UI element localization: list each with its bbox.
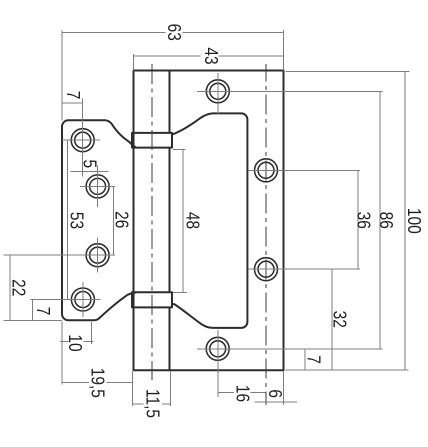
dimension 16 line — [218, 392, 265, 394]
svg-text:7: 7 — [33, 307, 54, 316]
hole B outer — [255, 258, 278, 281]
svg-text:7: 7 — [303, 355, 324, 364]
svg-text:19,5: 19,5 — [87, 368, 108, 398]
dimension 5 line — [70, 170, 108, 172]
dimension 43 line — [134, 55, 284, 57]
svg-text:22: 22 — [8, 279, 29, 296]
dimension 7 right line — [304, 349, 306, 370]
svg-text:16: 16 — [232, 385, 253, 402]
hole H2 outer — [86, 175, 109, 198]
dimension 100 line — [404, 71, 406, 370]
dimension 48 line — [182, 149, 184, 292]
svg-text:5: 5 — [79, 159, 100, 168]
extension knuckle left up — [133, 54, 135, 71]
dimension 7 top-left line — [61, 102, 82, 104]
crosshair H2 horizontal — [80, 185, 115, 187]
crosshair H4 vertical — [82, 282, 84, 317]
knuckle column right edge — [169, 71, 171, 371]
dimension 10 line — [60, 341, 94, 343]
crosshair B horizontal with 36 extension — [249, 268, 361, 270]
hole H1 outer — [71, 129, 94, 152]
hole H1 inner — [75, 132, 91, 148]
centerline knuckle — [151, 64, 153, 380]
svg-text:36: 36 — [353, 212, 374, 229]
svg-text:10: 10 — [64, 334, 85, 351]
extension leaf bottom left — [4, 320, 63, 322]
dimension 22 line — [9, 255, 11, 320]
dimension 36 line — [357, 170, 359, 269]
crosshair H1 vertical — [82, 99, 84, 177]
dimension 26 line — [113, 186, 115, 255]
knuckle barrel bottom — [132, 292, 172, 307]
crosshair H2 vertical — [97, 166, 99, 208]
hole H3 inner — [90, 247, 106, 263]
hole A inner — [258, 162, 274, 178]
hole H4 outer — [71, 288, 94, 311]
svg-text:48: 48 — [182, 212, 203, 229]
dimension 7 bottom-left line — [32, 300, 34, 321]
extension leaf left edge down — [61, 322, 63, 385]
svg-text:100: 100 — [404, 208, 425, 234]
hole Bot outer — [206, 337, 229, 360]
extension leaf bottom curve start down — [91, 322, 93, 344]
dimension 32 line — [331, 269, 333, 370]
svg-text:86: 86 — [375, 212, 396, 229]
dimension 6 line — [254, 401, 297, 403]
crosshair H3 vertical — [97, 238, 99, 273]
hole H4 inner — [75, 292, 91, 308]
svg-text:11,5: 11,5 — [142, 389, 163, 418]
extension barrel left down — [132, 371, 134, 406]
crosshair T vertical — [217, 73, 219, 114]
svg-text:26: 26 — [111, 211, 132, 228]
big leaf outline — [134, 71, 284, 371]
svg-text:43: 43 — [201, 47, 222, 64]
knuckle barrel top — [132, 133, 172, 148]
hole Bot inner — [210, 341, 226, 357]
extension barrel right down — [170, 371, 172, 406]
extension 48 bottom — [173, 291, 187, 293]
hole B inner — [258, 261, 274, 277]
extension 48 top — [173, 148, 185, 150]
hole T outer — [206, 80, 229, 103]
hole H3 outer — [86, 244, 109, 267]
svg-text:7: 7 — [62, 91, 83, 100]
dimension 19,5 line — [62, 381, 133, 383]
crosshair H4 horizontal with 7 extension — [31, 299, 101, 301]
svg-text:6: 6 — [265, 389, 286, 398]
extension bottom edge right — [286, 369, 409, 371]
hole H2 inner — [90, 178, 106, 194]
svg-text:53: 53 — [66, 212, 87, 229]
svg-text:32: 32 — [329, 311, 350, 328]
hole A outer — [255, 159, 278, 182]
hole T inner — [210, 83, 226, 99]
dimension 63 line — [62, 31, 284, 33]
big leaf cutout — [171, 113, 247, 328]
crosshair H1 horizontal — [62, 139, 100, 141]
crosshair Bot horizontal with 86 extension — [197, 348, 383, 350]
dimension 53 line — [67, 140, 69, 299]
small leaf outline — [62, 120, 136, 320]
dimension 11,5 line — [133, 403, 171, 405]
crosshair T horizontal with 86 extension — [197, 90, 383, 92]
extension right part edge up — [283, 30, 285, 71]
extension top edge right — [286, 70, 410, 72]
extension left leaf edge up — [61, 30, 63, 120]
crosshair A horizontal with 36 extension — [249, 169, 361, 171]
dimension 86 line — [379, 91, 381, 349]
svg-text:63: 63 — [164, 24, 185, 41]
extension part right edge down — [283, 371, 285, 405]
crosshair Bot vertical with 16 extension — [217, 330, 219, 397]
centerline right hole column — [265, 64, 267, 405]
crosshair H3 horizontal with 22 extension — [4, 254, 116, 256]
